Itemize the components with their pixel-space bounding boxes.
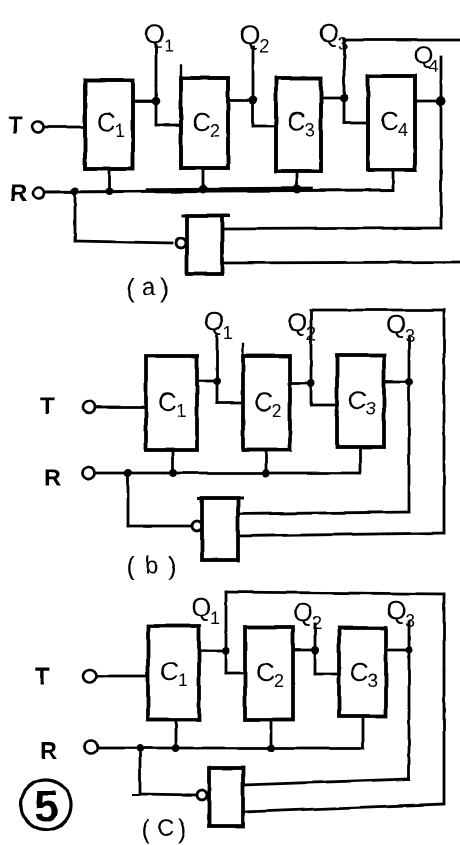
svg-text:2: 2 bbox=[210, 121, 220, 141]
svg-text:T: T bbox=[8, 112, 23, 139]
svg-text:1: 1 bbox=[115, 121, 125, 141]
svg-text:5: 5 bbox=[34, 782, 58, 831]
svg-text:a: a bbox=[142, 274, 156, 301]
svg-text:2: 2 bbox=[306, 324, 316, 344]
svg-text:C: C bbox=[350, 657, 369, 687]
svg-text:(: ( bbox=[126, 273, 135, 303]
svg-text:Q: Q bbox=[191, 592, 211, 622]
svg-text:3: 3 bbox=[338, 34, 348, 54]
svg-text:): ) bbox=[160, 273, 169, 303]
svg-text:T: T bbox=[35, 663, 50, 690]
svg-text:C: C bbox=[256, 657, 275, 687]
svg-text:3: 3 bbox=[366, 399, 376, 419]
svg-text:Q: Q bbox=[386, 309, 406, 339]
svg-text:C: C bbox=[158, 387, 177, 417]
svg-text:1: 1 bbox=[223, 323, 233, 343]
svg-text:3: 3 bbox=[405, 326, 415, 346]
svg-text:2: 2 bbox=[272, 401, 282, 421]
svg-text:C: C bbox=[97, 107, 116, 137]
svg-text:1: 1 bbox=[164, 36, 174, 56]
svg-text:C: C bbox=[348, 385, 367, 415]
svg-text:Q: Q bbox=[239, 20, 260, 50]
svg-text:(: ( bbox=[126, 551, 135, 581]
svg-text:1: 1 bbox=[210, 608, 220, 628]
svg-text:4: 4 bbox=[429, 57, 438, 76]
svg-text:Q: Q bbox=[319, 18, 339, 48]
svg-text:C: C bbox=[160, 656, 179, 686]
svg-text:(: ( bbox=[141, 814, 150, 844]
svg-text:C: C bbox=[287, 106, 306, 136]
svg-text:Q: Q bbox=[204, 306, 224, 336]
svg-text:T: T bbox=[40, 393, 55, 420]
svg-text:Q: Q bbox=[293, 597, 313, 627]
svg-text:C: C bbox=[254, 387, 273, 417]
svg-text:2: 2 bbox=[259, 36, 269, 56]
svg-text:1: 1 bbox=[176, 401, 186, 421]
svg-text:3: 3 bbox=[368, 671, 378, 691]
svg-text:b: b bbox=[145, 552, 158, 579]
svg-text:2: 2 bbox=[312, 613, 322, 633]
svg-text:): ) bbox=[178, 814, 187, 844]
svg-text:R: R bbox=[44, 465, 61, 492]
svg-text:Q: Q bbox=[386, 595, 406, 625]
svg-text:2: 2 bbox=[274, 671, 284, 691]
svg-text:C: C bbox=[380, 106, 399, 136]
svg-text:R: R bbox=[40, 738, 57, 765]
svg-text:R: R bbox=[10, 180, 27, 207]
svg-text:C: C bbox=[192, 107, 211, 137]
svg-text:C: C bbox=[157, 815, 174, 842]
svg-text:3: 3 bbox=[405, 611, 415, 631]
svg-text:3: 3 bbox=[305, 120, 315, 140]
svg-text:Q: Q bbox=[287, 307, 307, 337]
svg-text:4: 4 bbox=[398, 120, 408, 140]
svg-text:Q: Q bbox=[144, 19, 165, 49]
svg-text:1: 1 bbox=[178, 670, 188, 690]
svg-text:): ) bbox=[168, 551, 177, 581]
